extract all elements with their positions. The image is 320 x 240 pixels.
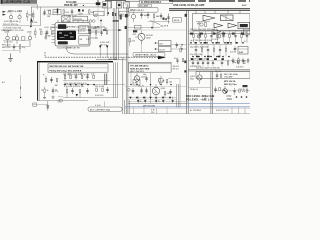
node bottom center arrow pair 2 [144, 97, 146, 103]
wire top mid [105, 0, 126, 2]
capacitor C702 [71, 88, 74, 94]
svg-text:OSC AMP: OSC AMP [224, 76, 233, 79]
svg-text:REC EQ 70µs: REC EQ 70µs [224, 84, 238, 86]
label REAR PANEL JACK [133, 52, 165, 56]
node B2 bus dark marks [113, 15, 122, 22]
svg-text:2.2k 470: 2.2k 470 [236, 67, 243, 69]
node C3 dark marks near border [184, 61, 186, 73]
resistor R703 [79, 90, 81, 98]
capacitor C311 [147, 12, 150, 19]
svg-text:10µ: 10µ [143, 74, 146, 76]
resistor R104 [30, 11, 37, 25]
node right cluster upper far [236, 61, 245, 69]
capacitor C913 right bank [210, 31, 212, 43]
IC U101 internal dark slab upper [58, 24, 67, 29]
wire double header line 2 [169, 9, 250, 11]
node B1 top dark blob 2 [103, 3, 106, 6]
wire A2 horizontal [3, 39, 30, 41]
wire right net y44.5 [188, 44, 232, 46]
svg-text:0.022 4.7k 100: 0.022 4.7k 100 [216, 110, 229, 112]
resistor R933 right bank2 [213, 45, 215, 57]
IC U101 internal sub-box upper right [79, 26, 89, 34]
svg-text:82k: 82k [94, 16, 97, 18]
svg-text:TH LINE MB (A/C): TH LINE MB (A/C) [130, 65, 149, 68]
wire lower bus vertical 1 [113, 62, 115, 97]
node mid dark blob near border 1 [125, 14, 128, 17]
transistor Q101 [8, 11, 14, 24]
node bottom center arrow pair 1 [137, 97, 142, 104]
label blue annotation right [227, 96, 233, 101]
capacitor C201 [44, 30, 48, 40]
transistor Q203 [27, 32, 32, 47]
svg-text:1µ: 1µ [41, 90, 43, 92]
wire double header line [169, 8, 250, 10]
node bottom center arrow pair 3 [155, 97, 160, 104]
wire amp box stub 1 [195, 10, 197, 13]
capacitor C915 right bank [222, 31, 224, 43]
node right long filter box [196, 72, 250, 79]
node junction dot right y43 [200, 42, 202, 44]
node A2 component box [13, 37, 16, 40]
wire right net y60.8 [188, 60, 250, 62]
svg-text:REC/PB SW OSC SW DOLBY NR: REC/PB SW OSC SW DOLBY NR [50, 66, 84, 68]
node A2 component box 2 [22, 37, 25, 40]
capacitor C950 right lower [233, 88, 236, 95]
wire stub to label [104, 102, 106, 108]
capacitor C944 right bank3 [212, 60, 214, 67]
node junction dot [107, 12, 109, 14]
node junction dot right y43 [206, 42, 208, 44]
node bias network box [53, 10, 61, 15]
svg-text:47µ: 47µ [174, 58, 177, 60]
node connector circle on wire [60, 99, 63, 102]
svg-text:1k2 14.3 9.4 5.6k 0.8 4.7: 1k2 14.3 9.4 5.6k 0.8 4.7µ 2.2k [63, 74, 89, 76]
node D2 dark dashes row y56.5 [196, 56, 220, 58]
svg-text:Q204: Q204 [141, 77, 145, 79]
node C2 extra wires [128, 30, 187, 52]
wire right top net [188, 30, 250, 32]
capacitor C314 [167, 14, 170, 24]
node right cluster mid [215, 71, 222, 80]
capacitor C205 [13, 44, 16, 50]
svg-text:100µ 16V: 100µ 16V [232, 62, 241, 64]
resistor R952 [246, 89, 248, 92]
node dark tick cluster [112, 12, 116, 16]
wire amp box stub 3 [214, 10, 216, 13]
svg-text:68k: 68k [48, 36, 51, 38]
label IC PROCESSOR-1 [125, 0, 173, 4]
capacitor C502 [50, 77, 53, 83]
capacitor C930 right bank2 [195, 45, 197, 57]
wire C3 staircase [131, 72, 180, 84]
wire arrow net 1 [99, 48, 101, 57]
title block [1, 0, 38, 5]
resistor R406 [91, 74, 95, 79]
wire signal bus vertical 2 [114, 8, 116, 60]
svg-text:MUTE: MUTE [174, 20, 180, 22]
svg-text:47µ B2: 47µ B2 [94, 27, 100, 29]
svg-text:330: 330 [55, 85, 58, 87]
resistor R916 right bank [229, 31, 231, 43]
wire right lower net [214, 90, 250, 92]
svg-text:47µ 16 2.2 100: 47µ 16 2.2 100 [190, 54, 202, 56]
resistor R402 [68, 74, 71, 79]
svg-text:47kΩ: 47kΩ [227, 99, 233, 101]
node junction dot right y56.5 [198, 56, 200, 58]
svg-text:BIAS: BIAS [239, 51, 244, 54]
svg-text:0.5V: 0.5V [227, 96, 232, 98]
wire left component row connector [42, 14, 95, 16]
wire center vertical net [150, 73, 152, 104]
svg-text:4.58 3.0: 4.58 3.0 [78, 31, 86, 33]
node C1 long select box [129, 7, 159, 12]
svg-text:PB EQ SW 120µs REC MUTE B: PB EQ SW 120µs REC MUTE B [50, 70, 82, 72]
svg-text:0.047 220 1k 56k: 0.047 220 1k 56k [4, 21, 19, 23]
wire lower left horizontal [38, 100, 88, 102]
capacitor C942 right bank3 [202, 60, 204, 67]
op-amp A4 right [213, 30, 221, 35]
wire signal bus vertical 3 [116, 1, 118, 60]
capacitor C3 right upper [174, 58, 184, 65]
op-amp A2 [214, 23, 223, 28]
wire dashed top border right [169, 0, 250, 2]
resistor R202 [39, 29, 42, 34]
label MIC AMP [138, 4, 152, 7]
resistor R931 right bank2 [201, 45, 203, 57]
svg-text:10µ 47k B: 10µ 47k B [160, 26, 169, 28]
node junction dot right y43 [242, 42, 244, 44]
node right mid box [238, 47, 248, 55]
svg-text:IC PROCESSOR-1: IC PROCESSOR-1 [141, 1, 162, 4]
box amplifier section right top [193, 14, 251, 31]
wire IC output 3 [90, 37, 98, 39]
wire lower right bus 1 [176, 84, 178, 108]
node component box below left [94, 11, 105, 16]
node small circle junction [58, 100, 60, 102]
node capacitor block [135, 25, 142, 29]
svg-text:AMP: AMP [242, 4, 247, 7]
node component center bottom 2 [159, 79, 165, 85]
resistor R201 [35, 28, 37, 38]
transistor Q801 big [152, 84, 165, 98]
node C2 junction dots left of boxes [155, 42, 159, 50]
capacitor C301 [86, 30, 91, 41]
svg-text:B-7: B-7 [2, 82, 5, 84]
resistor R106 [47, 11, 50, 18]
svg-text:560: 560 [167, 93, 170, 95]
node IC header text [64, 1, 96, 7]
wire top-mid descenders [98, 8, 105, 21]
wire right bottom net gray [188, 103, 250, 105]
wire thick ground bus vertical [37, 61, 39, 100]
wire section divider vertical right pair [186, 10, 188, 114]
svg-text:4.7µ B: 4.7µ B [95, 105, 101, 107]
wire A1 vertical net [30, 18, 32, 27]
svg-text:2.2 470: 2.2 470 [212, 39, 218, 41]
wire right double net y69.3 [188, 68, 250, 70]
wire [36, 4, 38, 10]
capacitor C917 right bank [234, 31, 236, 43]
node arrow connector [76, 94, 78, 97]
svg-text:2SC: 2SC [133, 34, 137, 36]
wire lower bus vertical 3 [117, 62, 119, 97]
wire left lower vertical [20, 75, 22, 97]
svg-text:220 1k 33k: 220 1k 33k [95, 86, 104, 88]
svg-text:10k: 10k [47, 16, 50, 18]
node top mid dark blob [96, 0, 101, 7]
capacitor C303 [100, 30, 103, 37]
wire amp box stub 2 [204, 10, 206, 13]
capacitor C934 right bank2 [219, 45, 221, 57]
capacitor C602 [52, 88, 59, 94]
wire center horizontals [128, 27, 160, 29]
wire lower vertical net x129 [128, 100, 130, 114]
svg-text:MIC AMP: MIC AMP [139, 5, 149, 8]
node junction dot right y43 [212, 42, 214, 44]
resistor D3 far right extra 2 [238, 57, 240, 64]
capacitor CD3a far right row [221, 60, 223, 67]
wire stub [58, 96, 63, 98]
capacitor C943 right bank3 [207, 60, 209, 67]
wire vertical x107.8 [107, 0, 109, 16]
capacitor C801 center bottom [132, 88, 135, 94]
capacitor D3 extra right [242, 58, 249, 65]
node junction dot right y56.5 [216, 56, 218, 58]
wire A1 vertical net x31.5 [31, 7, 33, 27]
wire diagonal [150, 21, 160, 25]
node head block [73, 16, 88, 21]
svg-text:R-CH: R-CH [160, 49, 166, 51]
resistor R203 [50, 29, 53, 35]
capacitor C320 [176, 43, 179, 49]
svg-text:220 3.3k 0.0047 100 6.8k: 220 3.3k 0.0047 100 6.8k 33k [196, 68, 220, 70]
node C2 right dots [181, 44, 182, 50]
transistor Q401 center bottom [134, 73, 145, 85]
node right box VU [244, 29, 251, 35]
IC U101 internal dark slab lower [58, 41, 68, 44]
diode D601 [47, 101, 50, 111]
op-amp A1 [203, 15, 215, 20]
resistor R401 bottom row [64, 73, 66, 81]
transistor Q901 right [190, 72, 202, 84]
node component box below right [119, 11, 129, 16]
node mid dark blob near border 2 [125, 26, 127, 29]
node B2 junction blobs on top wire [88, 29, 121, 31]
wire thin parallel to thick [38, 62, 40, 100]
node B3 junction dots on wire [64, 84, 95, 86]
wire A1 vertical net x40.5 [40, 7, 42, 26]
svg-text:68k: 68k [156, 16, 159, 18]
svg-text:47k: 47k [242, 91, 245, 93]
wire right vertical lower pair [210, 71, 212, 114]
node D3 busy row blobs [191, 58, 224, 60]
node dark label blob [133, 30, 138, 36]
svg-text:Q203: Q203 [161, 88, 166, 90]
wire C1 vertical x153 [152, 22, 154, 29]
svg-text:MPX FILTER: MPX FILTER [143, 106, 156, 108]
node junction dots right lower [236, 96, 248, 98]
svg-text:220 0.22 47k 2.2µ: 220 0.22 47k 2.2µ [3, 24, 19, 26]
svg-text:4.7µ 100k 0.01 47k 560: 4.7µ 100k 0.01 47k 560 [64, 86, 84, 88]
svg-text:22k: 22k [39, 29, 42, 31]
node C3 bottom extra component [166, 80, 172, 85]
resistor RD3b far right row [227, 60, 229, 67]
resistor R601 lower left [44, 87, 49, 97]
capacitor C941 right bank3 [197, 60, 199, 67]
svg-text:(REAR PANEL JACK): (REAR PANEL JACK) [135, 54, 157, 57]
capacitor D3 far right extra 1 [232, 58, 234, 65]
node junction dot right y43 [195, 42, 197, 44]
svg-text:0.01 1k: 0.01 1k [230, 51, 236, 53]
resistor R935 right bank2 [225, 45, 227, 57]
node D2 dark junction blobs row y33.5 [190, 33, 244, 35]
resistor R501 cluster left bottom [43, 75, 47, 82]
wire section divider vertical left pair 2 [127, 4, 129, 114]
wire section divider vertical right pair 2 [187, 10, 189, 114]
svg-text:Q105: Q105 [27, 32, 32, 34]
svg-text:REC 0.5V: REC 0.5V [2, 47, 11, 49]
svg-text:R/T 4.5: R/T 4.5 [173, 69, 179, 71]
wire lower second [33, 104, 48, 106]
node junction dot right y43 [230, 42, 232, 44]
node input arrow 1 [3, 11, 7, 13]
node junction dot right y43 [224, 42, 226, 44]
label bottom small cluster [151, 108, 157, 114]
wire right double net y71 [188, 70, 250, 72]
wire thick ground bus horizontal [37, 61, 113, 63]
capacitor C802 [138, 86, 144, 94]
svg-text:LINE LEVEL IN SEL(R) AMP: LINE LEVEL IN SEL(R) AMP [173, 4, 205, 7]
op-amp A3 [228, 23, 237, 28]
wire center lower horizontal 2 [128, 101, 188, 103]
node relay box 2 [123, 2, 129, 8]
label blue annotation REC LEVEL [186, 94, 214, 101]
svg-text:4.7: 4.7 [244, 41, 247, 43]
node junction dot right y56.5 [228, 56, 230, 58]
resistor R302 [93, 28, 97, 39]
svg-text:4.7k 100: 4.7k 100 [30, 22, 37, 24]
wire bus end horizontal [96, 59, 126, 61]
wire component stubs row1 [50, 12, 89, 16]
node dark blob on right border [185, 14, 187, 17]
capacitor C105 [43, 10, 51, 16]
IC U101 outline box [55, 23, 90, 47]
wire dashed section border corner [44, 52, 46, 57]
node junction dot right y43 [190, 42, 192, 44]
node circle pair small [128, 89, 131, 92]
wire signal bus vertical 4 [117, 8, 119, 60]
svg-text:PWB BL 86T ■: PWB BL 86T ■ [64, 4, 85, 7]
IC U101 top pins [58, 20, 88, 23]
svg-text:DOLBY: DOLBY [80, 29, 87, 31]
capacitor C911 right bank [198, 31, 200, 43]
wire IC output 1 [90, 27, 102, 29]
label A4 tiny labels [41, 90, 58, 92]
capacitor C919 right bank [246, 31, 248, 43]
node junction dot right y56.5 [192, 56, 194, 58]
wire C4 top horizontal [125, 86, 187, 88]
label NO CURRENT [88, 107, 122, 111]
node C3 wire dots [130, 84, 171, 85]
resistor R312 [153, 14, 159, 21]
node junction dot right y56.5 [222, 56, 224, 58]
wire bottom edge line [125, 112, 250, 114]
wire lower right bus 3 [179, 84, 181, 108]
svg-text:0.022 470: 0.022 470 [95, 95, 103, 97]
node A1 dark bar [57, 9, 58, 14]
resistor R112 [89, 10, 95, 14]
svg-text:8.2k: 8.2k [66, 12, 70, 14]
node junction dot right y43 [236, 42, 238, 44]
node junction dot 2 [151, 27, 153, 29]
svg-text:REC/PB: REC/PB [74, 19, 82, 21]
svg-text:4.7µ 33k 0.033: 4.7µ 33k 0.033 [64, 16, 77, 18]
svg-text:100: 100 [169, 82, 172, 84]
wire bottom faint second line [125, 107, 250, 109]
svg-text:1k: 1k [180, 47, 182, 49]
resistor R701 mid bottom row [66, 87, 68, 98]
node B3 dark vertical pair [105, 74, 107, 86]
node dark mark cluster [78, 9, 84, 16]
wire signal bus vertical 1 [112, 8, 114, 60]
wire B2 loop corner [66, 46, 129, 54]
wire bottom row bus 2 [63, 84, 125, 86]
node bottom center arrow pair 5 [172, 97, 174, 103]
node right bottom marks [216, 107, 245, 114]
node input arrow 2 [3, 14, 7, 16]
transistor Q301 center [135, 31, 153, 45]
node filter block with cross [221, 15, 234, 21]
label IC right rows [80, 29, 87, 42]
svg-text:MB2 1MB: MB2 1MB [109, 59, 118, 61]
wire section divider vertical left pair [125, 7, 127, 114]
resistor R103 [27, 11, 34, 22]
label C3 right column [173, 66, 179, 71]
transistor QD2a [197, 34, 201, 38]
resistor R304 [104, 28, 108, 34]
IC U101 internal sub-box lower right [79, 36, 89, 44]
svg-text:2.2k: 2.2k [91, 74, 95, 76]
node junction dot right y43 [218, 42, 220, 44]
svg-text:Q202: Q202 [146, 38, 151, 40]
svg-text:μPC: μPC [197, 23, 201, 25]
node relay driver box [173, 18, 182, 23]
node arrow on dashed border [158, 56, 166, 60]
resistor R404 [80, 74, 83, 79]
resistor R503 [55, 79, 58, 88]
capacitor C405 [86, 74, 89, 80]
svg-text:PB EQ 1k: PB EQ 1k [190, 89, 198, 91]
ground GND1 [8, 54, 13, 62]
node C4 arrow row upper [129, 97, 171, 99]
capacitor C310 [140, 12, 147, 19]
node junction dot right y56.5 [210, 56, 212, 58]
capacitor C403 [75, 74, 78, 80]
resistor R206 [19, 45, 26, 53]
capacitor C932 right bank2 [207, 45, 209, 57]
capacitor C940 right bank3 [192, 60, 194, 67]
capacitor C945 [234, 46, 237, 52]
svg-text:DOLBY NR: DOLBY NR [70, 48, 80, 50]
node mid junction with lead [100, 20, 102, 27]
node C4 junction under transistor [155, 97, 157, 99]
ground A4 hatch 2 [52, 96, 55, 99]
capacitor C803 [145, 88, 148, 94]
svg-text:MB2 LINE MPX: MB2 LINE MPX [130, 71, 145, 73]
node meter block dark [238, 22, 250, 28]
node arrow down 1 [99, 46, 101, 49]
wire input row [2, 25, 40, 27]
